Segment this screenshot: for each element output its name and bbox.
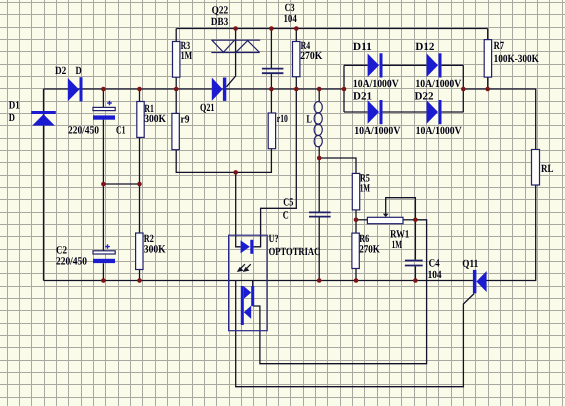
svg-text:300K: 300K [144,113,166,125]
wire: bottom bus y=280.5 [44,280,474,282]
svg-text:104: 104 [428,269,442,281]
svg-text:D22: D22 [415,90,434,102]
opto coupling arrows [238,264,251,271]
diode D22 [427,100,442,124]
svg-text:300K: 300K [144,244,166,256]
opto triac [241,286,254,325]
wire: bridge left vertical [343,65,345,112]
wire: RL top to right rail [463,89,535,150]
wire: opto triac cathode pin to Q11 gate [236,281,475,387]
potentiometer RW1 [367,214,403,224]
svg-text:C: C [283,210,289,222]
node: main rail C3/r10 [269,87,274,92]
svg-text:270K: 270K [359,244,380,256]
svg-text:RL: RL [541,163,554,175]
svg-text:OPTOTRIAC: OPTOTRIAC [269,246,321,258]
svg-text:D12: D12 [415,41,434,53]
node: main rail R1 [137,87,142,92]
wire: C4 leads [414,220,416,281]
node: L bottom [317,156,322,161]
resistor RL [532,150,540,186]
resistor R2 [136,233,143,270]
diode D12 [427,53,442,77]
node: R5/RW1/R6 [354,218,359,223]
wire: r9 leads and tie to r10 [176,89,271,172]
wire: RW1 right lead [403,219,415,221]
node: bus C4 [413,278,418,283]
svg-text:10A/1000V: 10A/1000V [416,125,462,137]
wire: C1 leads [102,89,104,184]
wire: R2 leads [139,184,141,281]
resistor R4 [293,42,300,77]
inductor L [314,102,322,147]
resistor R6 [352,233,359,268]
svg-text:R7: R7 [494,40,505,52]
wire: R4 leads [295,29,297,90]
svg-text:r9: r9 [181,114,190,126]
wire: R4 node down to opto LED cathode staircase [253,89,296,247]
node: RW1 right [413,218,418,223]
wire: main horizontal rail y=89 [44,88,345,90]
wire: bridge top branch [344,64,463,66]
wire: opto triac top lead to bus [252,281,254,287]
svg-text:1M: 1M [181,50,193,62]
wire: RW1 left lead [356,219,367,221]
resistor R7 [484,40,491,78]
svg-text:10A/1000V: 10A/1000V [415,78,461,90]
node: bus R6 [354,278,359,283]
wire: left AC input vertical through D1 [43,89,45,281]
svg-text:Q11: Q11 [462,258,478,270]
wire: bridge right vertical [462,65,464,112]
wire: DB3 center electrode [227,29,236,87]
capacitor C3 [262,69,284,74]
wire: RW1 wiper loop [386,198,416,220]
node: top bus R4 [294,26,299,31]
svg-text:Q22: Q22 [212,5,229,17]
resistor r10 [268,113,275,149]
diode D1 [31,111,56,126]
svg-text:104: 104 [284,13,298,25]
svg-text:D: D [9,112,15,124]
svg-text:D1: D1 [9,100,20,112]
node: bus C5 [317,278,322,283]
capacitor C5 [309,212,331,216]
svg-text:Q21: Q21 [200,102,215,114]
svg-text:270K: 270K [300,50,322,62]
diode D11 [368,53,383,77]
wire: opto LED anode from r9/r10 node [236,172,241,246]
node: main rail R3/r9 [174,87,179,92]
diode D21 [368,100,383,124]
node: bus R2 [137,278,142,283]
capacitor C2 [93,244,115,263]
wire: C5 leads [318,158,320,281]
svg-text:D2: D2 [55,65,67,77]
node: bus C2 [101,278,106,283]
wire: R1 leads [139,89,141,184]
wire: top bus y=28.5 [176,28,488,30]
svg-text:10A/1000V: 10A/1000V [353,78,399,90]
node: bridge output [461,87,466,92]
svg-text:r10: r10 [277,113,288,125]
wire: RW1 node feedback to opto triac anode [253,220,426,364]
svg-text:220/450: 220/450 [56,255,87,267]
wire: C1/R1 tie [103,183,139,185]
triac Q11 [473,270,487,293]
wire: R6 leads [355,220,357,281]
svg-text:C1: C1 [116,125,126,137]
node: main rail C1 [101,87,106,92]
svg-text:D: D [76,65,82,77]
wire: r10 top lead [270,89,272,113]
svg-text:C5: C5 [283,197,293,209]
wire: R3 leads [175,29,177,90]
resistor R5 [352,173,359,210]
wire: C3 leads [270,29,272,90]
resistor R3 [173,42,180,78]
capacitor C4 [405,261,423,266]
node: main rail L [317,87,322,92]
node: bridge input [342,87,347,92]
wire: L node to R5 [319,158,356,173]
wire: C2 leads [102,184,104,281]
node: main rail R4 [294,87,299,92]
SCR Q21 [212,78,226,101]
node: top bus C3 [269,26,274,31]
svg-text:C4: C4 [429,257,440,269]
capacitor C1 [93,101,115,120]
resistor R1 [137,102,144,138]
node: tie R1/R2 [137,182,142,187]
node: R7 bottom [485,87,490,92]
svg-text:220/450: 220/450 [68,125,99,137]
svg-text:100K-300K: 100K-300K [494,53,540,65]
resistor r9 [172,113,179,149]
opto LED [241,240,254,254]
diode D2 [68,77,83,101]
svg-text:1M: 1M [392,239,403,251]
svg-text:10A/1000V: 10A/1000V [354,125,400,137]
node: tie C1/C2 [101,182,106,187]
optocoupler U? box [229,235,268,331]
svg-text:1M: 1M [360,182,370,194]
svg-text:D21: D21 [353,90,372,102]
wire: bridge bottom branch [344,111,463,113]
svg-text:DB3: DB3 [211,16,229,28]
wire: R5 bottom to RW1 node [355,210,357,220]
wire: L leads [318,89,320,158]
node: top bus DB3 [233,26,238,31]
svg-text:U?: U? [269,233,279,245]
diac Q22 DB3 [211,40,260,52]
svg-text:L: L [306,114,312,126]
wires group [44,29,536,387]
wire: R7 leads [487,29,489,90]
svg-text:D11: D11 [353,41,372,53]
node: r9/r10 LED [233,170,238,175]
wire: bus from Q11 to RL column [487,185,536,281]
